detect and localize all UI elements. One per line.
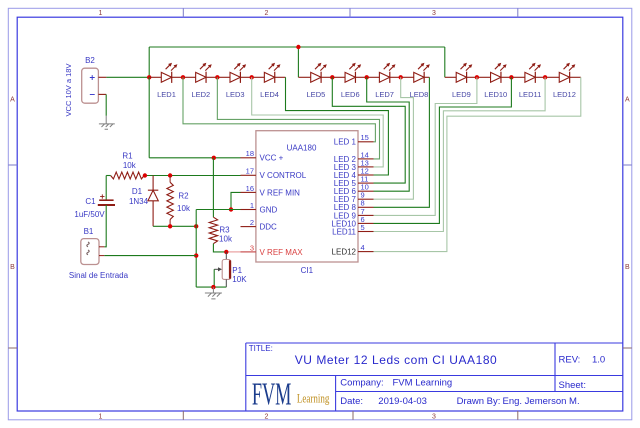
svg-text:3: 3 <box>432 413 436 420</box>
wire R2 top lead <box>169 176 171 183</box>
wire C1 bottom to B1 <box>104 205 106 247</box>
svg-text:LED7: LED7 <box>375 90 394 99</box>
svg-text:16: 16 <box>246 184 254 193</box>
pin 1 stub left <box>241 209 256 211</box>
LED D4 LED4 <box>252 76 265 78</box>
svg-text:VCC +: VCC + <box>260 154 284 163</box>
signal source B1 sine marks <box>87 242 89 255</box>
svg-text:1.0: 1.0 <box>592 355 605 366</box>
junction VCC node at LED1 feed <box>147 75 151 79</box>
wire B2- down to ground <box>105 94 107 115</box>
wire LED7 cathode to pin <box>374 77 414 199</box>
pin 8 stub right <box>358 206 374 208</box>
LED D9 LED9 <box>445 76 456 78</box>
junction R2 bottom node <box>168 224 172 228</box>
wire R1 left down to C1 <box>105 176 107 201</box>
wire R1 output to pin 17 <box>144 175 240 177</box>
junction pin16-pin1 node <box>229 207 233 211</box>
ground symbol main <box>205 287 222 299</box>
wire VCC bus riser left <box>148 47 150 77</box>
wire B1 bottom output <box>104 255 196 257</box>
svg-text:10K: 10K <box>232 275 247 284</box>
potentiometer P1 wiper arrow <box>214 268 219 270</box>
svg-text:R1: R1 <box>122 152 133 161</box>
svg-text:LED5: LED5 <box>307 90 326 99</box>
svg-text:B1: B1 <box>84 227 94 236</box>
wire LED1 cathode to pin <box>183 77 375 142</box>
wire rail down left <box>195 226 197 287</box>
zone tick right A-B <box>623 164 632 166</box>
svg-text:2: 2 <box>250 218 254 227</box>
LED D6 LED6 <box>332 76 345 78</box>
LED D3 LED3 <box>217 76 230 78</box>
wire R2 bottom lead <box>169 220 171 227</box>
zone tick left A-B <box>8 164 17 166</box>
battery B2 plus mark <box>90 75 95 80</box>
pin 2 stub left <box>241 226 256 228</box>
junction LED6 cathode node <box>365 75 369 79</box>
junction VCC bus group2 tap <box>296 45 300 49</box>
LED D2 LED2 <box>183 76 196 78</box>
svg-text:15: 15 <box>361 133 369 142</box>
pin 13 stub right <box>358 166 374 168</box>
LED D7 LED7 <box>367 76 380 78</box>
svg-text:LED11: LED11 <box>332 227 356 236</box>
junction LED5 cathode node <box>330 75 334 79</box>
junction ground rail node <box>194 224 198 228</box>
junction LED1 cathode node <box>181 75 185 79</box>
svg-text:Drawn By:: Drawn By: <box>457 396 501 407</box>
svg-text:10k: 10k <box>219 235 233 244</box>
svg-text:VCC 10V a 18V: VCC 10V a 18V <box>64 64 73 117</box>
svg-text:REV:: REV: <box>559 355 581 366</box>
svg-text:LED1: LED1 <box>157 90 176 99</box>
svg-text:V CONTROL: V CONTROL <box>260 171 307 180</box>
svg-text:LED2: LED2 <box>191 90 210 99</box>
wire pin1 GND row <box>196 209 240 211</box>
pin 15 stub right <box>358 141 374 143</box>
title block logo cell divider <box>335 376 337 412</box>
junction ground symbol node <box>211 285 215 289</box>
title block row divider 2 <box>336 391 623 393</box>
svg-text:10k: 10k <box>177 204 191 213</box>
LED D1 LED1 <box>149 76 161 78</box>
pin 18 stub left <box>241 157 256 159</box>
svg-text:P1: P1 <box>232 266 242 275</box>
junction LED10 cathode node <box>509 75 513 79</box>
svg-text:1: 1 <box>250 201 254 210</box>
wire VCC down to pin 18 row <box>148 77 150 158</box>
wire LED2 cathode to pin <box>217 77 379 159</box>
wire pin3 V REF MAX <box>226 251 240 253</box>
pin 4 stub right <box>358 251 374 253</box>
svg-text:4: 4 <box>361 243 365 252</box>
wire R1 left lead <box>106 175 110 177</box>
pin 14 stub right <box>358 158 374 160</box>
LED D8 LED8 <box>401 76 414 78</box>
zone tick bottom 1 <box>182 411 184 420</box>
svg-text:10k: 10k <box>123 161 137 170</box>
svg-text:FVM: FVM <box>252 376 292 412</box>
resistor R1 <box>111 172 145 179</box>
svg-text:2019-04-03: 2019-04-03 <box>378 396 427 407</box>
zone tick left B-C <box>8 347 17 349</box>
svg-text:Sinal de Entrada: Sinal de Entrada <box>69 271 129 280</box>
LED D10 LED10 <box>477 76 491 78</box>
wire LED5 cathode to pin <box>332 77 405 183</box>
junction B1 bottom node <box>194 253 198 257</box>
svg-text:LED11: LED11 <box>519 90 541 99</box>
svg-text:Learning: Learning <box>297 392 330 406</box>
wire LED3 cathode to pin <box>252 77 384 167</box>
junction LED7 cathode node <box>399 75 403 79</box>
battery B2 pin - stub <box>98 93 106 95</box>
battery B2 pin + stub <box>98 76 106 78</box>
junction LED2 cathode node <box>215 75 219 79</box>
battery B2 body <box>82 68 99 103</box>
capacitor C1 <box>99 199 113 201</box>
svg-text:GND: GND <box>260 205 278 214</box>
wire VCC to R3 top <box>212 158 214 217</box>
svg-text:3: 3 <box>250 243 254 252</box>
title block left line <box>245 343 247 411</box>
svg-text:V REF MAX: V REF MAX <box>260 248 304 257</box>
svg-text:Eng. Jemerson M.: Eng. Jemerson M. <box>503 396 580 407</box>
pin 17 stub left <box>241 174 256 176</box>
svg-text:R3: R3 <box>219 226 230 235</box>
svg-text:1N34: 1N34 <box>129 197 149 206</box>
svg-text:18: 18 <box>246 149 254 158</box>
svg-text:VU Meter 12 Leds com CI UAA180: VU Meter 12 Leds com CI UAA180 <box>295 353 498 367</box>
wire LED9 cathode to pin <box>374 77 477 215</box>
potentiometer P1 body <box>222 260 231 280</box>
pin 3 stub left <box>241 251 256 253</box>
zone tick right B-C <box>623 347 632 349</box>
potentiometer P1 top lead <box>225 252 227 260</box>
svg-text:B: B <box>625 264 630 271</box>
wire LED10 cathode to pin <box>374 77 512 223</box>
svg-text:C1: C1 <box>85 197 96 206</box>
junction R1 output node <box>143 173 147 177</box>
svg-text:B: B <box>10 264 15 271</box>
svg-text:LED12: LED12 <box>553 90 576 99</box>
pin 5 stub right <box>358 231 374 233</box>
wire LED4 cathode to pin <box>286 77 389 175</box>
signal source B1 pin bottom stub <box>99 255 104 257</box>
signal source B1 pin top stub <box>99 246 104 248</box>
LED D11 LED11 <box>511 76 525 78</box>
svg-text:LED4: LED4 <box>260 90 279 99</box>
svg-text:FVM Learning: FVM Learning <box>393 378 453 389</box>
zone tick top 1 <box>182 8 184 17</box>
svg-text:V REF MIN: V REF MIN <box>260 188 301 197</box>
svg-text:A: A <box>625 96 630 103</box>
zone tick top 3 <box>517 8 519 17</box>
LED D12 LED12 <box>545 76 559 78</box>
wire wiper down to ground rail <box>213 269 215 287</box>
title block row divider 1 <box>246 375 623 377</box>
pin 12 stub right <box>358 174 374 176</box>
wire LED6 cathode to pin <box>367 77 410 191</box>
pin 7 stub right <box>358 214 374 216</box>
resistor R3 <box>209 217 217 243</box>
wire R3 bottom to node <box>213 244 226 252</box>
resistor R2 <box>167 182 173 219</box>
svg-text:LED12: LED12 <box>332 248 357 257</box>
svg-text:1uF/50V: 1uF/50V <box>74 210 105 219</box>
junction LED3 cathode node <box>250 75 254 79</box>
wire bottom ground rail <box>196 286 226 288</box>
wire GND row down to rail <box>195 210 197 227</box>
svg-text:1: 1 <box>99 10 103 17</box>
svg-text:2: 2 <box>265 10 269 17</box>
svg-text:3: 3 <box>432 10 436 17</box>
pin 10 stub right <box>358 190 374 192</box>
svg-text:Date:: Date: <box>340 396 363 407</box>
zone tick top 2 <box>349 8 351 17</box>
pin 9 stub right <box>358 198 374 200</box>
svg-text:CI1: CI1 <box>301 266 314 275</box>
junction R3 top tap <box>212 156 216 160</box>
diode D1 <box>148 176 158 227</box>
wire VCC bus drop group3 <box>444 47 446 77</box>
wire pin16 to pin1 vertical <box>231 192 241 209</box>
svg-text:5: 5 <box>361 223 365 232</box>
pin 6 stub right <box>358 222 374 224</box>
svg-text:D1: D1 <box>132 187 143 196</box>
zone tick bottom 2 <box>352 411 354 420</box>
wire VCC bus drop group2 <box>297 47 299 77</box>
svg-text:LED 1: LED 1 <box>334 138 357 147</box>
svg-text:LED9: LED9 <box>452 90 471 99</box>
wire LED12 cathode to pin <box>374 77 581 251</box>
pin 16 stub left <box>241 191 256 193</box>
junction V REF MAX node <box>224 250 228 254</box>
op-amp IC U1 UAA180 body <box>256 131 358 262</box>
svg-text:UAA180: UAA180 <box>287 143 317 152</box>
wire D1-R2 ground rail <box>153 225 196 227</box>
junction R2 top node <box>168 173 172 177</box>
svg-text:Company:: Company: <box>340 378 383 389</box>
wire B2+ to LED bus <box>106 76 149 78</box>
LED D5 LED5 <box>298 76 310 78</box>
wire VCC to pin 18 <box>149 157 240 159</box>
svg-text:LED10: LED10 <box>484 90 507 99</box>
svg-text:DDC: DDC <box>260 223 278 232</box>
battery B2 minus mark <box>90 94 95 96</box>
zone tick bottom 3 <box>517 411 519 420</box>
svg-text:LED3: LED3 <box>226 90 245 99</box>
signal source B1 body <box>81 239 99 265</box>
svg-text:B2: B2 <box>85 56 95 65</box>
potentiometer P1 bottom lead <box>225 279 227 287</box>
wire VCC top bus <box>149 46 445 48</box>
potentiometer P1 track bar <box>229 260 231 278</box>
svg-text:R2: R2 <box>178 191 189 200</box>
pin 11 stub right <box>358 182 374 184</box>
svg-text:LED6: LED6 <box>341 90 360 99</box>
title block top line <box>246 342 623 344</box>
svg-text:2: 2 <box>265 413 269 420</box>
wire LED8 cathode to pin <box>374 77 430 207</box>
svg-text:A: A <box>10 96 15 103</box>
ground symbol B2 <box>99 116 115 130</box>
svg-text:17: 17 <box>246 167 254 176</box>
junction LED9 cathode node <box>475 75 479 79</box>
junction LED11 cathode node <box>543 75 547 79</box>
svg-text:TITLE:: TITLE: <box>249 344 273 353</box>
svg-text:1: 1 <box>99 413 103 420</box>
wire LED11 cathode to pin <box>374 77 546 231</box>
svg-text:Sheet:: Sheet: <box>559 380 586 391</box>
title block rev cell divider <box>554 343 556 392</box>
